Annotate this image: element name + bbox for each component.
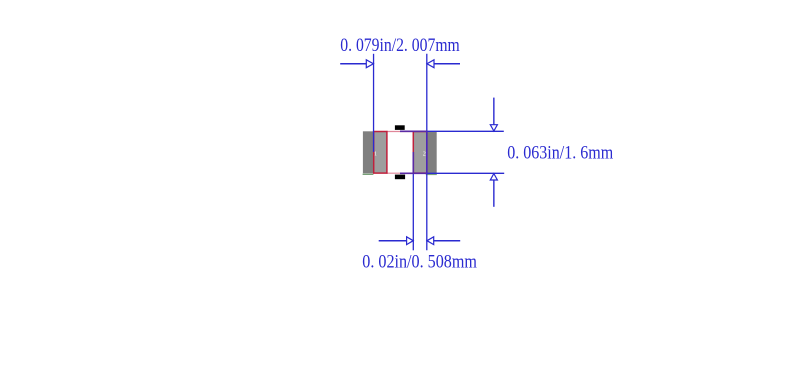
pad 2 lighter portion under body <box>413 131 427 173</box>
right dimension vertical line upper <box>493 98 495 125</box>
right dimension arrowhead up (open) <box>490 174 497 180</box>
svg-text:0. 063in/1. 6mm: 0. 063in/1. 6mm <box>507 142 613 163</box>
courtyard green edge under pad 1 <box>363 173 374 175</box>
dimension witness line right (x=426.8) <box>426 54 428 251</box>
right dimension extension line top <box>400 130 504 132</box>
right dimension vertical line lower <box>493 180 495 207</box>
terminal 1 outline (red) <box>374 132 387 174</box>
terminal 2 outline (red) <box>413 132 427 174</box>
svg-text:0. 02in/0. 508mm: 0. 02in/0. 508mm <box>362 251 477 272</box>
overlap purple: body top edge under extension line <box>400 130 428 132</box>
bottom dimension witness line (x=413.3) <box>412 152 414 250</box>
right dimension extension line bottom <box>400 172 504 174</box>
body outline top edge (pink) <box>387 131 414 133</box>
top dimension arrowhead right (open, points left) <box>427 60 434 68</box>
bottom dimension line right segment <box>434 240 461 242</box>
overlap purple: body bottom edge under extension line <box>400 172 428 174</box>
bottom dimension arrowhead left (open, points right) <box>407 237 414 245</box>
bottom dimension arrowhead right (open, points left) <box>427 237 434 245</box>
top dimension line right segment <box>434 63 460 65</box>
overlap purple: terminal edge under witness line <box>412 152 414 174</box>
overlap purple: body right edge under witness line <box>426 131 428 174</box>
svg-text:2: 2 <box>423 150 426 157</box>
body outline bottom edge (pink) <box>387 172 414 174</box>
pin 1 marker bar (bottom black) <box>395 175 405 180</box>
right dimension arrowhead down (open) <box>490 125 497 131</box>
svg-text:0. 079in/2. 007mm: 0. 079in/2. 007mm <box>340 35 460 56</box>
pad 1 lighter portion under body <box>374 131 387 173</box>
dimension witness line left (x=373.5) <box>373 54 375 152</box>
pin 1 marker bar (top black) <box>395 125 405 130</box>
top dimension line left segment <box>340 63 366 65</box>
bottom dimension line left segment <box>379 240 407 242</box>
top dimension arrowhead left (open, points right) <box>366 60 373 68</box>
pad 2 (right, dark gray) <box>413 131 437 173</box>
courtyard green edge under pad 2 <box>426 173 437 175</box>
svg-text:1: 1 <box>374 150 377 157</box>
pad 1 (left, dark gray) <box>363 131 387 173</box>
